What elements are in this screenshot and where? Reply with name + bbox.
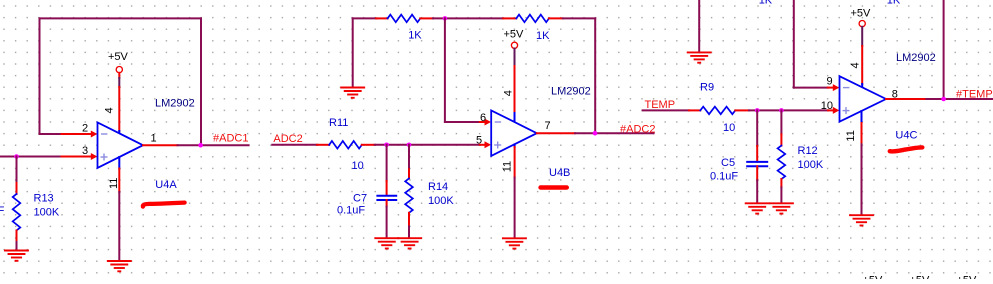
- wire R9 right red stub: [735, 109, 749, 111]
- wire pin 8 output red: [886, 98, 926, 100]
- op-amp U4A triangle: [98, 122, 144, 167]
- wire C7 to ground: [386, 207, 388, 239]
- annotation red squiggle under U4C: [890, 147, 923, 151]
- svg-text:4: 4: [503, 90, 515, 96]
- wire R14 bottom red stub: [408, 213, 410, 227]
- minus mark pin 9: [844, 87, 849, 89]
- svg-text:6: 6: [480, 112, 486, 124]
- wire R11 right red stub: [362, 144, 375, 146]
- wire R11 left red stub: [317, 144, 329, 146]
- svg-text:TEMP: TEMP: [645, 99, 676, 111]
- wire feedback top-left segment U4B: [353, 17, 377, 19]
- svg-text:R13: R13: [34, 193, 54, 205]
- wire R14 top red stub: [408, 169, 410, 178]
- svg-text:9: 9: [827, 76, 833, 88]
- ground below pin 11 U4A: [108, 261, 131, 271]
- wire pin 11 red stub: [118, 169, 120, 193]
- svg-text:11: 11: [502, 161, 514, 172]
- wire feedback right vertical U4B: [594, 18, 596, 133]
- svg-text:+5V: +5V: [863, 274, 884, 279]
- wire R11 to junctions: [375, 144, 480, 146]
- op-amp U4C triangle: [840, 76, 887, 122]
- plus mark pin 5: [495, 142, 501, 148]
- ground top area U4C: [688, 52, 711, 62]
- wire R13 bottom red stub: [16, 231, 18, 243]
- svg-text:R9: R9: [700, 82, 714, 94]
- wire R13 top red stub: [16, 183, 18, 194]
- wire to pin 2: [40, 133, 62, 135]
- wire pin 10 red stub: [828, 109, 834, 111]
- svg-text:100K: 100K: [428, 195, 454, 207]
- svg-text:2: 2: [82, 123, 88, 135]
- ground below C5: [746, 203, 769, 213]
- pin 11 of U4C: [861, 111, 863, 123]
- ground below R12: [770, 203, 793, 213]
- wire pin 3 red stub: [62, 156, 92, 158]
- svg-text:3: 3: [82, 145, 88, 157]
- capacitor C7: [377, 196, 396, 200]
- pin 4 of U4B: [514, 113, 516, 123]
- node junction output U4C: [941, 97, 946, 102]
- wire feedback left vertical U4A: [39, 18, 41, 134]
- svg-text:1K: 1K: [759, 0, 773, 7]
- wire down to C7: [386, 145, 388, 181]
- wire top vertical to pin 9: [793, 0, 795, 88]
- svg-text:R14: R14: [428, 181, 448, 193]
- wire +5V to pin 4 U4B: [514, 49, 516, 67]
- op-amp U4B triangle: [491, 110, 537, 155]
- power +5V circle U4B: [511, 42, 517, 48]
- svg-text:#ADC1: #ADC1: [213, 133, 248, 145]
- svg-text:R11: R11: [329, 117, 348, 129]
- wire pin 11 to ground U4B: [514, 178, 516, 238]
- svg-text:10: 10: [821, 100, 833, 112]
- svg-text:4: 4: [104, 107, 116, 113]
- wire junction down to pin 6: [444, 18, 446, 122]
- plus mark pin 10: [843, 108, 849, 114]
- wire R9 to junctions: [749, 109, 828, 111]
- wire feedback vertical from output U4C: [943, 0, 945, 99]
- wire TEMP net: [643, 109, 689, 111]
- resistor R14: [405, 179, 413, 213]
- svg-text:10: 10: [352, 160, 364, 172]
- svg-text:C5: C5: [721, 157, 735, 169]
- wire C5 bottom red stub: [756, 166, 758, 180]
- wire feedback top U4A: [40, 17, 202, 19]
- node junction output U4A: [198, 143, 203, 148]
- node junction R14 tap: [407, 143, 412, 148]
- svg-text:LM2902: LM2902: [896, 52, 936, 64]
- wire feedback right vertical U4A: [200, 18, 202, 145]
- wire C7 bottom red stub: [386, 200, 388, 207]
- wire R12 bottom red stub: [780, 179, 782, 187]
- svg-text:100K: 100K: [798, 159, 824, 171]
- wire R13 to ground: [16, 242, 18, 250]
- resistor R12: [778, 146, 786, 179]
- wire +5V to pin 4 U4C: [861, 27, 863, 46]
- minus mark pin 6: [495, 121, 500, 123]
- svg-text:U4C: U4C: [895, 130, 917, 142]
- resistor R13: [13, 194, 21, 230]
- resistor R11: [329, 141, 362, 149]
- wire pin 5 red stub: [480, 144, 486, 146]
- node junction feedback top: [443, 16, 448, 21]
- pin 10 arrowhead: [833, 107, 840, 114]
- pin 2 arrowhead: [91, 131, 98, 138]
- wire left vertical to ground: [352, 18, 354, 87]
- ground below R13: [5, 251, 28, 261]
- ground below C7: [375, 238, 398, 248]
- svg-text:+5V: +5V: [504, 29, 525, 41]
- resistor R9: [700, 107, 735, 115]
- svg-text:1K: 1K: [887, 0, 901, 7]
- plus mark pin 3: [101, 154, 107, 160]
- svg-text:0.1uF: 0.1uF: [0, 205, 5, 217]
- minus mark pin 2: [102, 133, 107, 135]
- node junction C7 tap: [384, 143, 389, 148]
- pin 3 arrowhead: [91, 153, 98, 160]
- svg-text:0.1uF: 0.1uF: [337, 204, 365, 216]
- pin 11 of U4A: [118, 157, 120, 169]
- wire red stub left of second 1K: [503, 17, 516, 19]
- pin 11 of U4B: [514, 144, 516, 147]
- capacitor C5: [747, 162, 767, 166]
- ground below pin 11 U4B: [503, 238, 526, 248]
- pin 9 arrowhead: [833, 84, 840, 91]
- svg-text:1K: 1K: [536, 30, 550, 42]
- svg-text:5: 5: [476, 135, 482, 147]
- resistor 1K second: [516, 15, 549, 23]
- wire pin 11 red stub U4B: [514, 147, 516, 178]
- ground below R14: [398, 238, 421, 248]
- svg-text:ADC2: ADC2: [273, 133, 302, 145]
- wire red stub left of 1K: [376, 17, 387, 19]
- svg-text:LM2902: LM2902: [551, 86, 591, 98]
- svg-text:U4B: U4B: [549, 167, 570, 179]
- svg-text:0.1uF: 0.1uF: [710, 170, 738, 182]
- power +5V circle U4C: [859, 21, 865, 27]
- node junction output U4B: [593, 131, 598, 136]
- wire R9 left red stub: [689, 109, 700, 111]
- wire C5 to ground: [756, 180, 758, 203]
- pin 4 of U4A: [118, 131, 120, 135]
- svg-text:1: 1: [151, 133, 157, 145]
- svg-text:1K: 1K: [408, 30, 422, 42]
- wire down to R14: [408, 145, 410, 170]
- pin 5 arrowhead: [485, 141, 492, 148]
- wire top vertical to ground U4C: [698, 0, 700, 52]
- resistor 1K first: [388, 15, 421, 23]
- wire horizontal to pin 9: [794, 87, 828, 89]
- svg-text:4: 4: [850, 62, 862, 68]
- wire pin 11 to ground U4C: [861, 144, 863, 215]
- svg-text:+5V: +5V: [910, 274, 931, 279]
- svg-text:+5V: +5V: [851, 7, 872, 19]
- wire horizontal to pin 6: [445, 121, 480, 123]
- svg-text:10: 10: [723, 122, 735, 134]
- wire output to #ADC2: [575, 132, 654, 134]
- wire down to R12: [780, 110, 782, 134]
- pin 4 of U4C: [861, 84, 863, 89]
- wire pin 9 red stub: [828, 87, 834, 89]
- wire junction down to R13: [16, 157, 18, 184]
- svg-text:100K: 100K: [34, 207, 60, 219]
- annotation red squiggle under U4A: [143, 203, 185, 207]
- svg-text:C7: C7: [353, 193, 367, 205]
- power +5V circle U4A: [116, 67, 122, 73]
- svg-text:7: 7: [545, 120, 551, 132]
- wire +5V to pin 4: [118, 73, 120, 78]
- wire red stub right of second 1K: [549, 17, 563, 19]
- wire output to #TEMP: [926, 98, 993, 100]
- svg-text:LM2902: LM2902: [155, 97, 195, 109]
- svg-text:R12: R12: [798, 145, 818, 157]
- wire R14 to ground: [408, 227, 410, 239]
- svg-text:U4A: U4A: [155, 179, 177, 191]
- wire down to C5: [756, 110, 758, 146]
- svg-text:+5V: +5V: [108, 51, 129, 63]
- wire pin 11 red stub U4C: [861, 123, 863, 144]
- wire feedback top-right segment: [563, 17, 595, 19]
- wire pin 2 red stub: [62, 133, 92, 135]
- wire red stub right of 1K: [420, 17, 433, 19]
- wire R12 to ground: [780, 187, 782, 203]
- svg-text:+5V: +5V: [957, 274, 978, 279]
- wire output to #ADC1: [178, 144, 249, 146]
- wire pin 6 red stub: [480, 121, 486, 123]
- wire R12 top red stub: [780, 134, 782, 145]
- node junction at R13 tap: [14, 154, 19, 159]
- node junction C5 tap: [755, 108, 760, 113]
- wire ADC2 net: [272, 144, 317, 146]
- svg-text:11: 11: [845, 130, 857, 141]
- wire pin 11 to ground: [118, 192, 120, 261]
- wire to second 1K: [433, 17, 503, 19]
- ground left of U4B feedback: [341, 88, 364, 98]
- wire pin 7 output red: [537, 132, 575, 134]
- pin 6 arrowhead: [485, 119, 492, 126]
- svg-text:#ADC2: #ADC2: [620, 123, 655, 135]
- svg-text:#TEMP: #TEMP: [956, 88, 993, 100]
- node junction R12 tap: [779, 108, 784, 113]
- annotation red bar under U4B: [541, 185, 567, 189]
- wire C7 top red stub: [386, 181, 388, 195]
- wire pin 1 output red: [143, 144, 178, 146]
- wire input net to pin 3: [0, 156, 62, 158]
- wire C5 top red stub: [756, 146, 758, 162]
- ground below pin 11 U4C: [850, 215, 873, 225]
